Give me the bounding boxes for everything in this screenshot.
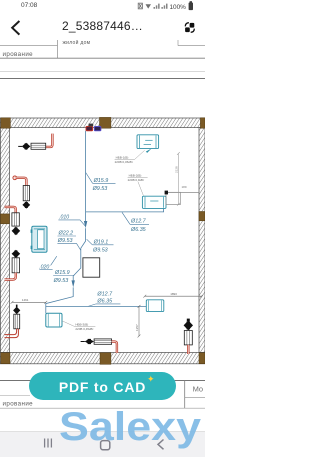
svg-text:Ø15.9: Ø15.9 [93, 178, 109, 184]
valve V5 [13, 305, 20, 315]
radiator R5 vertical [14, 314, 20, 329]
column right-middle [199, 212, 205, 221]
column bottom-right [199, 353, 205, 364]
pipe red P7 [187, 345, 189, 354]
pipe red P1 (top-left radiator outlet) [46, 134, 53, 147]
bottom table cell line [185, 397, 205, 399]
dim text D7 [53, 270, 75, 284]
svg-text:жилой дом: жилой дом [63, 39, 91, 46]
column bottom-left [1, 353, 10, 364]
column bottom-middle [100, 353, 111, 365]
bottom table line dark [0, 380, 205, 382]
fan coil U1 [137, 135, 159, 149]
gray line to wall [168, 191, 199, 193]
radiator R1 horizontal [31, 143, 46, 149]
nav bar [0, 431, 205, 457]
label: жилой дом [63, 39, 91, 46]
svg-text:Ø12.7: Ø12.7 [130, 219, 147, 225]
refrigerant riser (blue) [84, 131, 87, 228]
radiator R2 vertical [23, 186, 29, 201]
column top-right [200, 118, 205, 128]
radiator R7 vertical [184, 331, 192, 345]
app bar [0, 12, 205, 40]
label ирование bottom [3, 401, 34, 408]
pipe red P2 (to radiator R2) [13, 176, 26, 186]
bottom table vertical [184, 381, 186, 409]
fan coil U4 [46, 313, 62, 327]
svg-text:220В 0,45кВт: 220В 0,45кВт [75, 327, 94, 331]
PDF to CAD pill [29, 372, 176, 400]
PDF drawing SVG [0, 0, 205, 456]
svg-text:Мо: Мо [193, 385, 204, 394]
fan coil U5 [146, 300, 164, 312]
svg-text:.010: .010 [59, 214, 69, 220]
wall top (hatched) [0, 118, 205, 128]
svg-text:1890: 1890 [170, 292, 177, 296]
equipment box S2 [166, 192, 180, 204]
bottom table bottom line [0, 407, 205, 409]
svg-text:Ø9.53: Ø9.53 [92, 186, 108, 192]
svg-text:ирование: ирование [3, 401, 34, 408]
svg-text:Ø22.2: Ø22.2 [58, 231, 74, 237]
fan coil U2 [142, 196, 166, 208]
valve V3 [12, 227, 21, 236]
valve V1 [18, 143, 30, 150]
column top-middle [100, 117, 111, 128]
label 189 [182, 185, 187, 189]
svg-text:НБВ-1(В): НБВ-1(В) [116, 155, 129, 159]
svg-text:1461: 1461 [22, 298, 29, 302]
junction dot node A [165, 191, 168, 195]
svg-text:Ø9.53: Ø9.53 [53, 278, 69, 284]
svg-text:189: 189 [182, 185, 187, 189]
riser marker red box [86, 126, 93, 130]
dimension line bottom-right [143, 292, 203, 297]
svg-text:1357: 1357 [135, 324, 139, 331]
label Мо [193, 385, 204, 394]
svg-text:Ø9.53: Ø9.53 [92, 248, 108, 254]
branch pipe to U2 [86, 209, 164, 212]
annotation T3 [62, 321, 95, 331]
title block divider vertical [57, 40, 59, 58]
radiator R3 vertical [12, 213, 19, 226]
svg-text:Ø12.7: Ø12.7 [96, 291, 113, 297]
outdoor unit S1 [83, 258, 100, 277]
riser marker dark tab [89, 124, 94, 127]
column left-middle [0, 214, 9, 224]
dim text D3 [57, 231, 81, 251]
annotation T1 [115, 148, 152, 164]
svg-text:НБВ-2(В): НБВ-2(В) [129, 174, 142, 178]
pipe red P4 (radiator R4 return) [5, 273, 16, 280]
riser marker blue box [94, 126, 101, 130]
pipe run down-left [46, 228, 86, 313]
bottom table line light [0, 395, 30, 397]
Salexy watermark [0, 406, 205, 408]
pipe red P6 (radiator R6 outlet) [112, 342, 117, 353]
svg-text:НБВ-3(В): НБВ-3(В) [75, 322, 88, 326]
column top-left [1, 118, 11, 128]
dim text D2 .010 [58, 214, 85, 226]
valve V2 [22, 201, 30, 208]
wall right (hatched) [199, 128, 205, 353]
svg-text:ирование: ирование [3, 51, 34, 58]
pipe red P5 (radiator R5 return, double) [5, 329, 19, 338]
dimension line vertical x178 [174, 152, 179, 206]
wall bottom (hatched) [0, 353, 205, 364]
wall left (hatched) [0, 128, 9, 353]
pipe run to U5 [46, 305, 147, 307]
radiator R6 horizontal [94, 339, 112, 344]
fan coil U3 vertical [31, 226, 47, 252]
svg-text:2128: 2128 [174, 166, 178, 173]
valve V6 [81, 339, 94, 344]
title block cell line right [178, 40, 205, 46]
dim text D6 .020 [39, 256, 57, 270]
svg-text:Ø6.35: Ø6.35 [130, 227, 147, 233]
svg-text:Ø9.53: Ø9.53 [57, 238, 73, 244]
annotation T2 [128, 174, 148, 196]
svg-text:220В 0,9кВт: 220В 0,9кВт [128, 178, 145, 182]
dim text D1 [86, 172, 116, 192]
valve V4 [12, 250, 21, 258]
title block cell line left [0, 45, 58, 47]
dimension line vertical x139 [135, 305, 140, 337]
dim text D8 [88, 291, 120, 306]
title block bottom line [0, 57, 205, 59]
label: ...ирование [3, 51, 34, 58]
sheet separator dark line [0, 78, 205, 80]
dim text D4 [87, 239, 114, 253]
svg-text:220В 0,45кВт: 220В 0,45кВт [115, 160, 134, 164]
pipe red P3 (wall to radiator R3) [5, 207, 16, 213]
radiator R4 vertical [12, 258, 19, 273]
dimension line bottom-left [11, 298, 48, 304]
svg-text:Ø15.9: Ø15.9 [54, 270, 70, 276]
dim text D5 [122, 212, 149, 233]
status bar [0, 0, 205, 12]
sheet separator light line [0, 71, 205, 73]
valve V7 [184, 319, 193, 331]
